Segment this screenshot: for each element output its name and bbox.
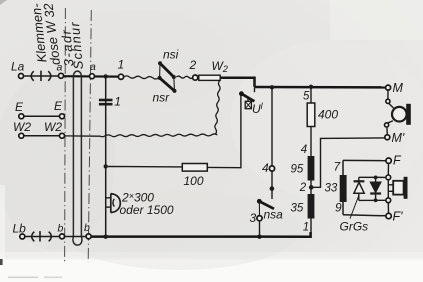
svg-text:1: 1 [118,58,125,72]
wire Lb row [25,236,60,238]
electrolytic capacitor 2x300 oder 1500 [106,191,174,218]
right column F to F' [387,163,389,213]
label U' [252,101,264,116]
wire W2 row to wavy [65,135,100,137]
resistor 100 [182,164,207,189]
wire M to jack contact [387,90,389,99]
svg-text:a: a [90,61,96,73]
label 4 (chain) [301,144,307,156]
svg-text:E: E [15,100,24,114]
terminal M [386,81,404,95]
svg-text:400: 400 [318,108,338,122]
terminal F' [386,210,403,224]
svg-text:a: a [57,62,63,74]
label nsi [163,48,179,62]
wavy wire from W2 resistor down [215,80,220,134]
svg-text:33: 33 [325,183,338,195]
wavy wire nsi to node 2 [176,76,193,78]
label nsr [153,91,171,105]
svg-text:2: 2 [299,182,307,194]
resistor 33 (filled) [325,175,347,202]
resistor 400 [307,103,338,127]
bottom rail (thick) [91,232,311,237]
boundary dash-dot line 1 (Klemmendose/Schnur) [64,8,67,262]
cord conductor lines [73,76,81,236]
wire 35 to rail, label 1 [303,219,311,234]
svg-text:2: 2 [189,58,197,72]
main vertical wire from La junction [105,76,107,236]
node a (right) [90,61,97,79]
wire b to b [65,236,87,238]
svg-text:GrGs: GrGs [340,220,369,234]
scan corner speck [0,0,7,5]
svg-text:3: 3 [250,211,257,225]
boundary dash-dot line 2 (Schnur/Apparat) [88,10,91,262]
contact U' [239,87,255,108]
svg-text:F': F' [393,210,404,224]
node 1 [118,58,125,80]
jack contact circle lower [385,123,389,127]
svg-text:9: 9 [335,201,342,215]
connector (separable joint) on Lb [32,231,52,241]
junction dots bridge [374,176,378,203]
cord loop bottom arch [73,237,82,246]
svg-text:4: 4 [301,144,307,156]
junction dot bus to nsa branch [270,85,274,89]
svg-text:M': M' [392,131,405,145]
svg-text:b: b [58,223,64,235]
GrGs box left side [342,160,344,214]
receiver (earpiece) M [387,103,411,125]
wire node3 to bottom rail [259,221,261,237]
terminal W2 (left) [13,120,31,138]
scan edge speck bottom-left [0,259,3,265]
svg-text:W2: W2 [44,120,62,134]
wire 95 to junction 2 [310,181,312,195]
svg-text:35: 35 [291,203,304,215]
node W2 (right) [44,120,65,138]
node E (right) [54,99,65,119]
junction dot main vertical on rail [104,235,108,239]
svg-text:nsi: nsi [163,48,179,62]
svg-text:E: E [54,99,63,113]
connector (separable joint) on La [31,71,51,81]
diode Gr (outline, up) [354,177,365,200]
svg-text:95: 95 [291,164,304,176]
node 4 (nsa) [262,161,275,175]
junction dot (node to 100 resistor) [104,164,108,168]
junction dot bus to chain 5 [309,85,313,89]
svg-text:nsr: nsr [153,91,171,105]
bridge top rail [359,176,386,178]
wire E row [24,115,60,117]
wire bus down to node 4 [271,87,273,166]
bridge bottom rail [359,199,386,201]
jack contact circle F upper [386,175,391,180]
switch nsa lever [257,199,274,216]
capacitor 1 [99,95,121,109]
svg-text:W2: W2 [13,120,31,134]
terminal E (left) [15,100,24,119]
fixed contact dot of nsa [270,186,275,191]
jack contact circle F lower [386,198,391,203]
top bus wire to M [255,86,386,89]
node a (left) [57,62,64,79]
junction dot nsa on bottom rail [257,235,261,239]
label 7 [334,160,342,174]
wire W2 row [24,135,60,137]
wire 100 to U' contact [207,95,241,168]
branch wire node2 to M' line [313,138,385,187]
node b (left) [58,223,65,239]
label GrGs [340,220,369,234]
GrGs box bottom rail [343,215,386,216]
pointer line GrGs [350,196,359,219]
wire La row [24,75,59,77]
jack contact circle upper [386,99,390,103]
wire node4 to fixed contact [271,171,273,199]
svg-text:La: La [11,60,25,74]
svg-text:nsa: nsa [264,208,284,222]
wire bus to resistor 400 [310,87,312,103]
node 2 [189,58,198,80]
svg-text:5: 5 [303,91,310,103]
junction dot on La row [104,74,108,78]
svg-text:M: M [393,81,404,95]
label 3-adr Schnur [58,21,86,71]
resistor 95 (filled) [291,156,315,181]
earphone F (capsule) [388,177,407,199]
thick wire W2 to bus corner [220,78,254,87]
wavy wire horizontal to W2 terminal row [99,134,217,137]
node b (right) [84,222,91,239]
label 5 [303,91,310,103]
label nsa [264,208,284,222]
svg-text:1: 1 [303,222,309,234]
label Klemmendose W32 [28,2,63,66]
wire 400 to 95 [310,127,312,157]
junction node 2 [299,182,314,194]
wire a to node 1 (thick) [64,75,119,78]
terminal Lb [13,222,27,240]
label 9 [335,201,342,215]
cord loop top arch [73,71,81,76]
resistor 35 (filled) [291,194,315,219]
switch nsi/nsr (parallelogram contact set) [158,61,177,93]
terminal F [386,154,402,168]
svg-text:100: 100 [184,174,204,188]
wire to M' [386,127,388,135]
resistor W2 [199,59,228,80]
terminal La [11,60,25,79]
svg-text:1: 1 [114,95,121,109]
svg-text:4: 4 [262,161,269,175]
GrGs box top rail [343,159,386,161]
node 3 (nsa) [250,211,263,225]
terminal M' [385,131,405,145]
svg-text:b: b [84,222,90,234]
svg-text:Lb: Lb [13,222,27,236]
wire junction to resistor 100 [108,166,182,168]
svg-text:oder 1500: oder 1500 [120,203,174,217]
wavy wire node1 to nsi switch [124,76,159,79]
diode Gs (filled, down) [370,177,381,200]
